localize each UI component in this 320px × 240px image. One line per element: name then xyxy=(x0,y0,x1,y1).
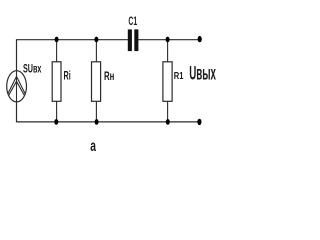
terminal dot bottom right xyxy=(197,119,201,125)
resistor Rn xyxy=(92,62,101,102)
svg-text:Ri: Ri xyxy=(64,70,71,83)
capacitor C1 plate right xyxy=(134,29,138,51)
current source center line xyxy=(16,71,18,102)
junction dot top R1 xyxy=(166,37,170,43)
junction dot top Rn xyxy=(94,37,98,43)
current source SUvx (circle) xyxy=(7,71,27,102)
junction dot bottom Ri xyxy=(54,119,58,125)
junction dot bottom Rn xyxy=(95,119,99,125)
wire Rn branch vertical xyxy=(95,40,97,122)
wire R1 branch vertical xyxy=(167,40,169,122)
capacitor C1 plate left xyxy=(128,29,132,51)
wire top bus left segment xyxy=(17,39,128,41)
junction dot bottom R1 xyxy=(166,119,170,125)
resistor Ri xyxy=(52,62,61,102)
resistor R1 xyxy=(163,62,172,102)
svg-text:C1: C1 xyxy=(128,15,137,29)
current source arrow chevron inner xyxy=(9,81,24,95)
junction dot top Ri xyxy=(55,37,59,43)
current source arrow chevron outer xyxy=(8,76,25,93)
svg-text:Uвых: Uвых xyxy=(189,63,216,85)
wire Ri branch vertical xyxy=(56,40,58,122)
wire top bus right segment xyxy=(138,39,199,41)
wire bottom bus xyxy=(17,121,200,123)
terminal dot top right xyxy=(198,36,202,42)
wire left vertical (source branch) xyxy=(16,39,18,122)
svg-text:а: а xyxy=(90,137,96,155)
svg-text:SUвх: SUвх xyxy=(23,63,42,76)
svg-text:R1: R1 xyxy=(174,70,184,81)
svg-text:Rн: Rн xyxy=(104,71,114,84)
